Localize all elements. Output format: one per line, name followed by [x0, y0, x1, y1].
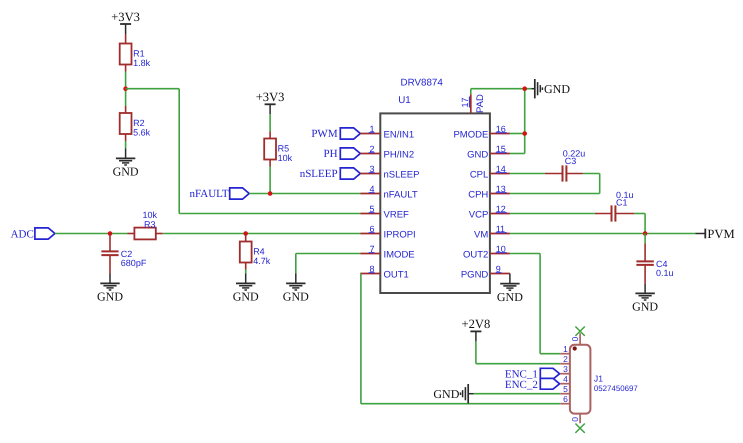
pin 3 J1 — [560, 364, 570, 374]
junction node ADC/C2 — [108, 231, 113, 236]
svg-text:CPH: CPH — [468, 190, 488, 201]
wire R1 to junction — [125, 72, 127, 107]
port ENC_2 — [505, 378, 560, 390]
svg-text:nSLEEP: nSLEEP — [300, 168, 338, 180]
svg-text:ENC_2: ENC_2 — [505, 379, 538, 391]
port PWM — [311, 128, 360, 140]
wire C1 down to VM net — [634, 214, 645, 234]
svg-text:VCP: VCP — [469, 210, 489, 221]
svg-text:VM: VM — [474, 230, 488, 241]
ground GND (under C4) — [632, 284, 658, 314]
svg-text:C3: C3 — [565, 156, 577, 166]
resistor R3 10k (horizontal) — [128, 210, 163, 239]
mounting pin 0 J1 top — [570, 333, 580, 345]
svg-text:GND: GND — [632, 300, 658, 314]
port nSLEEP — [300, 168, 361, 180]
svg-text:R2: R2 — [133, 118, 145, 128]
pin 11 VM — [474, 224, 510, 241]
svg-text:C1: C1 — [616, 198, 628, 208]
ground GND (sideways, near PAD) — [532, 79, 571, 98]
svg-text:0: 0 — [570, 337, 580, 342]
pin 1 EN/IN1 — [360, 124, 414, 141]
pin 7 IMODE — [360, 244, 414, 261]
resistor R2 5.6k — [120, 106, 151, 141]
power +2V8 — [462, 317, 491, 341]
svg-text:CPL: CPL — [470, 170, 488, 181]
pin 10 OUT2 — [463, 244, 510, 261]
port ENC_1 — [505, 368, 560, 380]
junction node R1/R2 divider — [123, 86, 128, 91]
junction node nFAULT/R5 — [268, 191, 273, 196]
wire R3 to IPROPI pin 6 — [163, 233, 361, 235]
svg-text:U1: U1 — [398, 95, 411, 106]
resistor R1 1.8k — [120, 37, 151, 72]
svg-text:GND: GND — [544, 82, 570, 96]
svg-text:10k: 10k — [278, 153, 293, 163]
pin 4 J1 — [560, 374, 570, 384]
svg-text:nSLEEP: nSLEEP — [384, 170, 420, 181]
svg-text:R3: R3 — [144, 219, 156, 229]
wire to pin 15 — [510, 153, 525, 155]
svg-text:R4: R4 — [253, 246, 265, 256]
wire R5 to nFAULT net — [269, 167, 271, 194]
pin 2 J1 — [560, 354, 570, 364]
ground GND (IMODE) — [283, 274, 309, 304]
junction node IPROPI/R4 — [243, 231, 248, 236]
pin 6 IPROPI — [360, 224, 415, 241]
pin 4 nFAULT — [360, 184, 418, 201]
svg-text:680pF: 680pF — [121, 258, 147, 268]
port PH — [324, 148, 361, 160]
wire divider vertical down — [178, 89, 180, 214]
svg-text:0.1u: 0.1u — [656, 268, 674, 278]
pin 16 PMODE — [453, 124, 509, 141]
svg-text:+3V3: +3V3 — [256, 90, 285, 104]
svg-text:6: 6 — [563, 394, 568, 404]
svg-text:IPROPI: IPROPI — [384, 230, 416, 241]
port ADC — [11, 228, 55, 241]
power +3V3 (left) — [111, 10, 140, 34]
capacitor C1 0.1u — [595, 190, 634, 222]
pin 9 PGND — [461, 264, 510, 281]
wire to pin 16 — [510, 133, 525, 135]
pin 2 PH/IN2 — [360, 144, 414, 161]
svg-text:EN/IN1: EN/IN1 — [384, 130, 415, 141]
wire nFAULT port to pin 4 — [249, 193, 360, 195]
svg-text:+3V3: +3V3 — [111, 10, 140, 24]
svg-text:GND: GND — [97, 290, 123, 304]
pin 13 CPH — [468, 184, 510, 201]
pin 3 nSLEEP — [360, 164, 419, 181]
svg-text:+2V8: +2V8 — [462, 317, 491, 331]
junction VM/C4 — [643, 231, 648, 236]
svg-text:GND: GND — [467, 150, 488, 161]
wire R2 to ground — [125, 141, 127, 149]
pin 1 marker dot J1 — [573, 346, 577, 350]
wire IMODE pin 7 to ground — [296, 253, 361, 255]
svg-text:GND: GND — [233, 290, 259, 304]
pin 5 VREF — [360, 204, 409, 221]
junction PAD/GND net — [522, 86, 527, 91]
wire PAD to GND net — [471, 89, 532, 95]
svg-text:PH: PH — [324, 148, 338, 160]
svg-text:1.8k: 1.8k — [133, 58, 151, 68]
pin 12 VCP — [469, 204, 510, 221]
resistor R5 10k — [264, 132, 292, 167]
svg-text:ADC: ADC — [11, 228, 34, 240]
pin 17 PAD — [460, 94, 486, 113]
svg-text:GND: GND — [497, 290, 523, 304]
wire ground to J1 pin 5 — [474, 393, 561, 395]
svg-text:3: 3 — [563, 364, 568, 374]
svg-text:PMODE: PMODE — [453, 130, 488, 141]
svg-text:5.6k: 5.6k — [133, 127, 151, 137]
svg-text:GND: GND — [113, 165, 139, 179]
ground GND (PGND pin 9) — [497, 274, 523, 304]
power port PVM — [696, 227, 735, 241]
wire OUT2 pin 10 to J1 pin 1 — [510, 254, 560, 354]
wire vertical PMODE/GND15 net — [524, 89, 526, 154]
svg-text:R5: R5 — [278, 143, 290, 153]
svg-text:DRV8874: DRV8874 — [401, 78, 444, 89]
svg-text:GND: GND — [433, 387, 459, 401]
wire VM pin 11 to PVM — [510, 233, 696, 235]
svg-text:PVM: PVM — [707, 227, 734, 241]
svg-text:R1: R1 — [133, 48, 145, 58]
pin 6 J1 — [560, 394, 570, 404]
wire VCP pin 12 to C1 — [510, 213, 595, 215]
wire divider to VREF (horizontal top) — [126, 88, 180, 90]
pin 8 OUT1 — [360, 264, 409, 281]
no-ERC cross J1 bottom — [575, 424, 584, 433]
ground GND (under R4) — [233, 274, 259, 304]
junction PMODE tap — [522, 131, 527, 136]
ground GND (under C2) — [97, 274, 123, 304]
svg-text:5: 5 — [563, 384, 568, 394]
svg-text:2: 2 — [563, 354, 568, 364]
wire to VREF pin 5 — [179, 213, 360, 215]
svg-text:OUT1: OUT1 — [384, 270, 409, 281]
svg-text:OUT2: OUT2 — [463, 250, 488, 261]
svg-text:4: 4 — [563, 374, 568, 384]
wire C3 to CPH pin 13 — [510, 174, 600, 194]
svg-text:PH/IN2: PH/IN2 — [384, 150, 415, 161]
svg-text:PAD: PAD — [475, 94, 486, 113]
capacitor C3 0.22u — [545, 148, 585, 181]
op-amp U1 DRV8874 (H-bridge driver IC body) — [380, 78, 490, 293]
pin 5 J1 — [560, 384, 570, 394]
wire ADC to R3 — [55, 233, 128, 235]
wire R4 to ground — [245, 270, 247, 274]
pin 1 J1 — [560, 344, 570, 354]
power +3V3 (middle) — [256, 90, 285, 114]
svg-text:J1: J1 — [594, 374, 603, 384]
wire +2V8 to J1 pin 2 — [476, 341, 560, 363]
svg-text:4.7k: 4.7k — [253, 256, 271, 266]
ground GND (sideways, J1 pin 5) — [433, 384, 473, 403]
capacitor C2 680pF — [101, 234, 146, 274]
wire OUT1 pin 8 to J1 pin 6 — [361, 274, 560, 404]
ground GND (under R2) — [113, 149, 139, 179]
svg-text:PWM: PWM — [311, 128, 338, 140]
svg-text:0: 0 — [570, 417, 580, 422]
svg-text:nFAULT: nFAULT — [384, 190, 418, 201]
svg-text:nFAULT: nFAULT — [189, 188, 228, 200]
connector J1 0527450697 — [570, 345, 638, 414]
capacitor C4 0.1u — [636, 234, 673, 284]
port nFAULT — [189, 188, 249, 200]
svg-text:0527450697: 0527450697 — [594, 384, 638, 393]
svg-text:GND: GND — [283, 290, 309, 304]
resistor R4 4.7k — [240, 235, 271, 270]
wire CPL pin 14 to C3 — [510, 173, 545, 175]
mounting pin 0 J1 bottom — [570, 414, 580, 424]
svg-text:PGND: PGND — [461, 270, 489, 281]
no-ERC cross J1 top — [575, 327, 584, 336]
svg-text:VREF: VREF — [384, 210, 410, 221]
svg-text:IMODE: IMODE — [384, 250, 415, 261]
svg-text:17: 17 — [460, 97, 470, 107]
pin 14 CPL — [470, 164, 510, 181]
pin 15 GND — [467, 144, 510, 161]
svg-text:1: 1 — [563, 344, 568, 354]
